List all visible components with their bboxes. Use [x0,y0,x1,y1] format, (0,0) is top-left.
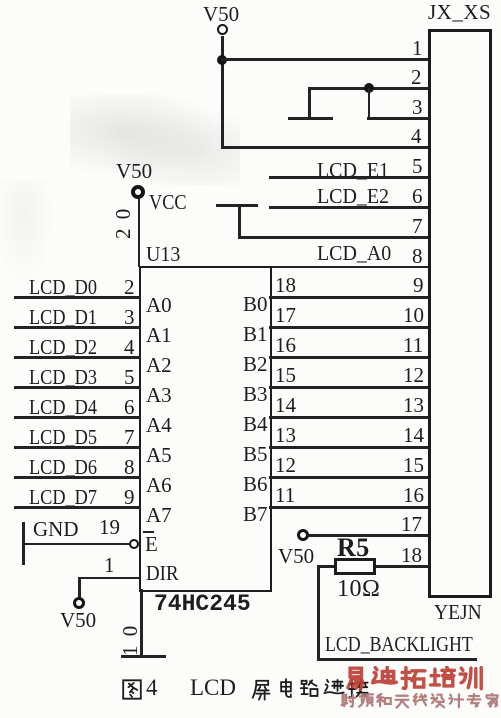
wire VCC pin20 vertical [138,198,141,267]
wire to pin 4 [221,146,428,149]
net label LCD_BACKLIGHT [325,634,473,655]
wire stub vertical to pin7 [238,205,241,238]
junction node pin1/V50 [217,55,227,65]
pin number 4 [124,337,135,358]
net label V50 top [203,4,239,25]
pin number 19 [99,517,120,538]
pin label DIR [146,563,179,584]
wire B4 bus [269,416,428,419]
watermark subtext [340,693,500,710]
pin number 14 [403,425,424,446]
net label V50 pin17 [278,546,314,567]
pin label A7 [146,505,172,526]
pin number 4 [411,126,422,147]
value label 10 ohm [337,578,380,600]
pin label B4 [243,414,268,435]
pin number 8 [124,457,135,478]
pin number 9 [124,487,135,508]
net label LCD_D6 [29,457,97,478]
pin label B0 [243,294,268,315]
pin number 1 [412,38,423,59]
pin number 15 [275,365,296,386]
pin number 9 [413,275,424,296]
node V50 pin17 terminal [297,529,309,541]
pin label B1 [243,324,268,345]
wire LCD_D0 bus [14,296,141,299]
wire backlight vertical [317,565,320,660]
wire backlight bottom [317,658,477,661]
pin number 18 [401,545,422,566]
pin number 15 [403,455,424,476]
wire B1 bus [269,326,428,329]
net label LCD_D7 [29,487,97,508]
pin label B7 [243,504,268,525]
pin number 2 [411,67,422,88]
wire V50 vertical to pin4 [221,36,224,148]
net label LCD_E2 [317,186,389,207]
pin label A0 [146,295,172,316]
pin number 12 [403,365,424,386]
connector label YEJN [434,602,482,623]
wire jumper pin2-pin3 vertical [368,88,371,118]
designator R5 [337,537,370,559]
wire B2 bus [269,356,428,359]
caption hanzi ping-dian-lu-lian-jie [251,678,369,701]
net label LCD_D0 [29,277,97,298]
wire LCD_D7 bus [14,506,141,509]
wire LCD_D1 bus [14,326,141,329]
scan noise backdrop [70,95,240,185]
pin number 8 [412,246,423,267]
pin number 17 [275,305,296,326]
pin number 11 [403,335,423,356]
net label V50 dir [60,610,96,631]
pin label A1 [146,325,172,346]
pin number 5 [124,367,135,388]
wire to pin 1 [221,58,428,61]
pin label VCC [149,192,187,213]
wire LCD_D4 bus [14,416,141,419]
pin label A3 [146,385,172,406]
pin label A4 [146,415,172,436]
pin number 6 [124,397,135,418]
pin number 14 [275,395,296,416]
node V50 top terminal [217,24,228,35]
node V50 dir terminal [73,597,85,609]
pin label A5 [146,445,172,466]
pin number 16 [403,485,424,506]
pin number 13 [403,395,424,416]
node V50 vcc terminal [131,185,145,199]
net label V50 vcc [116,161,152,182]
net label LCD_D3 [29,367,97,388]
wire LCD_D3 bus [14,386,141,389]
pin number 17 [401,514,422,535]
wire stub down from pin2 [308,87,311,117]
caption hanzi tu [121,678,143,701]
pin number 5 [412,156,423,177]
wire to pin 3 [367,117,428,120]
pin number 1 DIR [104,555,115,576]
wire pin 18 [376,565,428,568]
pin number 6 [412,186,423,207]
pin label B2 [243,354,268,375]
gnd bracket vertical [22,522,25,565]
designator U13 [146,244,180,265]
wire pin 10 vertical [140,589,143,656]
net label LCD_D4 [29,397,97,418]
wire LCD_A0 pin 8 / chip top [139,266,428,269]
net label LCD_A0 [317,243,391,264]
net label LCD_E1 [317,160,389,181]
pin label A2 [146,355,172,376]
caption text LCD [190,677,236,698]
wire B6 bus [269,476,428,479]
wire R5 left stub [318,565,334,568]
pin number 2 [124,277,135,298]
net label GND [33,519,79,540]
wire pin 17 [308,534,428,537]
part name 74HC245 [154,594,251,614]
net label LCD_D2 [29,337,97,358]
caption text 4 [146,677,158,698]
wire to pin 2 [308,87,428,90]
pin number 13 [275,425,296,446]
connector JX_XS [428,29,492,598]
resistor R5 body [334,558,376,575]
overline of E [143,531,154,533]
pin label B3 [243,384,268,405]
pin label B6 [243,474,268,495]
pin number 10 [403,305,424,326]
pin number 18 [275,275,296,296]
pin number 20 rotated [113,207,134,239]
pin number 11 [275,485,295,506]
wire LCD_E2 to pin 6 [269,206,428,209]
wire LCD_D2 bus [14,356,141,359]
node E terminal ring [129,539,139,549]
wire LCD_E1 to pin 5 [269,176,428,179]
pin label E-bar [145,534,158,555]
stub bar near VCC [216,204,258,207]
pin number 16 [275,335,296,356]
pin label A6 [146,475,172,496]
pin number 12 [275,455,296,476]
wire B5 bus [269,446,428,449]
wire B0 bus [269,296,428,299]
pin number 10 rotated [120,624,141,656]
pin number 3 [412,97,423,118]
wire to pin 7 [238,236,428,239]
pin number 7 [412,216,423,237]
pin number 3 [124,307,135,328]
net label LCD_D5 [29,427,97,448]
label JX_XS [428,2,491,23]
open contact bar [288,117,333,120]
wire DIR vertical drop [78,577,81,598]
op chip U13 74HC245 body [139,266,272,592]
wire LCD_D6 bus [14,476,141,479]
junction node pin2 jumper [364,83,374,93]
pin 10 end bar [121,655,166,658]
wire DIR [78,577,141,580]
wire GND to E [22,543,129,546]
watermark text yi-di-tuo-pei-xun [342,666,485,693]
pin number 7 [124,427,135,448]
net label LCD_D1 [29,307,97,328]
wire B3 bus [269,386,428,389]
wire LCD_D5 bus [14,446,141,449]
wire B7 bus [269,506,428,509]
pin label B5 [243,444,268,465]
